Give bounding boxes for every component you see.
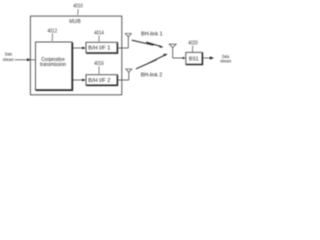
svg-text:B/H I/F 1: B/H I/F 1 — [88, 46, 110, 52]
svg-text:4014: 4014 — [94, 31, 104, 37]
svg-text:Data: Data — [5, 52, 13, 57]
svg-text:transmission: transmission — [40, 62, 66, 68]
svg-text:BS1: BS1 — [189, 57, 199, 63]
svg-text:stream: stream — [3, 57, 14, 62]
svg-text:MU/B: MU/B — [69, 19, 81, 25]
svg-text:BH-link 2: BH-link 2 — [141, 73, 163, 79]
svg-text:stream: stream — [220, 59, 231, 64]
svg-text:4016: 4016 — [94, 61, 104, 67]
svg-text:4010: 4010 — [73, 3, 83, 9]
svg-text:B/H I/F 2: B/H I/F 2 — [88, 78, 110, 84]
svg-text:BH-link 1: BH-link 1 — [141, 32, 163, 38]
